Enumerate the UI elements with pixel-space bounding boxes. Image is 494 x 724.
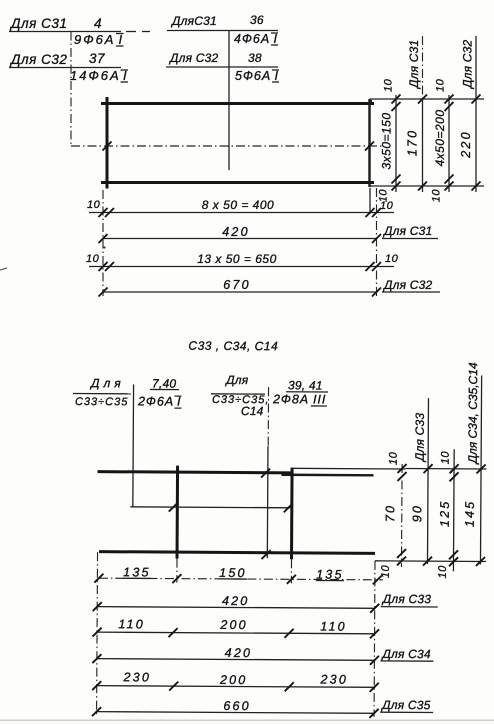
svg-text:13 х 50 = 650: 13 х 50 = 650 <box>197 252 277 266</box>
svg-text:Для С32: Для С32 <box>382 278 433 292</box>
svg-text:420: 420 <box>225 646 253 660</box>
svg-text:220: 220 <box>459 130 473 158</box>
svg-text:10: 10 <box>385 253 399 265</box>
svg-text:I: I <box>275 69 279 83</box>
svg-text:Для: Для <box>89 376 125 390</box>
svg-text:10: 10 <box>383 78 395 92</box>
svg-text:135: 135 <box>123 565 151 579</box>
svg-text:145: 145 <box>463 500 477 528</box>
svg-text:4х50=200: 4х50=200 <box>433 109 447 166</box>
svg-text:4Ф6А: 4Ф6А <box>234 32 270 46</box>
svg-text:Для С32: Для С32 <box>168 51 219 65</box>
svg-text:III: III <box>313 392 327 406</box>
svg-text:200: 200 <box>219 618 248 632</box>
svg-text:С14: С14 <box>241 404 264 418</box>
svg-text:420: 420 <box>222 225 249 239</box>
svg-text:420: 420 <box>222 594 250 608</box>
svg-text:10: 10 <box>87 199 101 211</box>
svg-text:10: 10 <box>440 451 452 465</box>
svg-text:70: 70 <box>383 504 397 522</box>
svg-text:ДляС31: ДляС31 <box>170 14 217 28</box>
svg-text:10: 10 <box>437 565 449 579</box>
svg-text:5Ф6А: 5Ф6А <box>235 69 271 83</box>
svg-text:14Ф6А: 14Ф6А <box>70 68 121 83</box>
svg-text:Для С31: Для С31 <box>407 40 421 90</box>
svg-text:10: 10 <box>431 189 443 203</box>
svg-text:Для С31: Для С31 <box>382 224 432 238</box>
svg-text:110: 110 <box>118 617 145 631</box>
svg-text:230: 230 <box>123 670 152 684</box>
svg-text:230: 230 <box>319 672 348 686</box>
svg-text:С33 , С34, С14: С33 , С34, С14 <box>188 339 278 354</box>
svg-text:660: 660 <box>223 699 251 713</box>
svg-text:Для С32: Для С32 <box>9 52 67 67</box>
svg-text:125: 125 <box>438 499 452 527</box>
svg-text:С33÷С35: С33÷С35 <box>75 396 128 408</box>
svg-text:670: 670 <box>223 278 250 292</box>
svg-text:135: 135 <box>316 567 344 581</box>
svg-text:38: 38 <box>248 51 262 65</box>
svg-text:2Ф8А: 2Ф8А <box>272 392 309 406</box>
svg-text:10: 10 <box>380 200 394 212</box>
svg-text:2Ф6А: 2Ф6А <box>137 394 174 408</box>
svg-text:Для С35: Для С35 <box>380 698 431 712</box>
svg-text:Для С32: Для С32 <box>461 39 475 90</box>
svg-text:8 х 50 = 400: 8 х 50 = 400 <box>202 198 274 212</box>
svg-text:170: 170 <box>406 129 420 156</box>
svg-text:Для С33: Для С33 <box>413 413 427 464</box>
svg-text:4: 4 <box>94 16 102 31</box>
svg-text:Для С34: Для С34 <box>380 647 431 661</box>
svg-text:10: 10 <box>435 78 447 92</box>
svg-text:3х50=150: 3х50=150 <box>380 112 394 169</box>
svg-text:Для С34, С35,С14: Для С34, С35,С14 <box>466 362 481 465</box>
svg-text:7,40: 7,40 <box>152 376 176 390</box>
svg-text:I: I <box>119 32 125 47</box>
svg-text:36: 36 <box>250 13 264 27</box>
svg-text:150: 150 <box>219 566 247 580</box>
svg-text:Для: Для <box>224 373 249 387</box>
svg-text:Для С31: Для С31 <box>9 16 67 31</box>
svg-text:90: 90 <box>410 504 424 522</box>
svg-text:Для С33: Для С33 <box>381 592 432 606</box>
svg-text:10: 10 <box>86 253 100 265</box>
svg-text:110: 110 <box>320 619 347 633</box>
svg-text:200: 200 <box>219 673 248 687</box>
svg-text:37: 37 <box>89 51 105 66</box>
svg-text:9Ф6А: 9Ф6А <box>74 32 115 47</box>
svg-text:39, 41: 39, 41 <box>288 378 323 392</box>
svg-text:10: 10 <box>388 451 400 465</box>
svg-text:I: I <box>274 32 278 46</box>
